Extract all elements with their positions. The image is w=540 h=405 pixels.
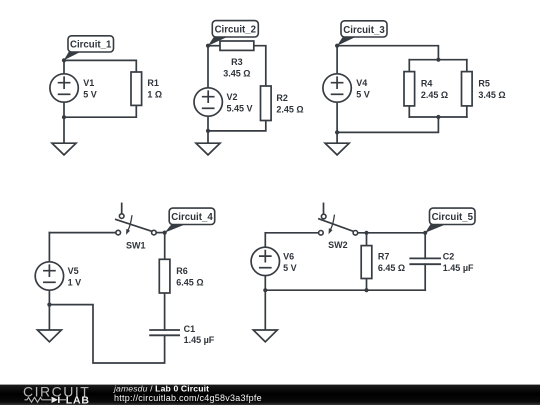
wire V5 top stub xyxy=(48,233,50,262)
voltage source V4 xyxy=(323,74,351,102)
wire V2 top stub xyxy=(207,46,209,88)
svg-text:V2: V2 xyxy=(227,92,238,102)
svg-text:Circuit_5: Circuit_5 xyxy=(432,212,474,223)
node A1 xyxy=(62,58,66,62)
wire R4 top stub xyxy=(408,60,410,72)
svg-text:R7: R7 xyxy=(378,252,390,262)
wire node to R6 xyxy=(164,233,166,260)
svg-text:R3: R3 xyxy=(231,57,243,67)
svg-text:V4: V4 xyxy=(356,78,367,88)
svg-text:6.45 Ω: 6.45 Ω xyxy=(378,263,405,273)
wire V2 bottom stub xyxy=(207,116,209,131)
svg-text:5 V: 5 V xyxy=(356,90,370,100)
svg-text:2.45 Ω: 2.45 Ω xyxy=(421,90,448,100)
capacitor C2 xyxy=(410,258,440,264)
label R6 value xyxy=(176,266,203,287)
capacitor C1 xyxy=(150,330,179,335)
switch SW2 xyxy=(319,203,358,235)
svg-text:SW2: SW2 xyxy=(328,240,348,250)
voltage source V5 xyxy=(35,262,63,290)
flag Circuit_2 xyxy=(208,21,258,46)
svg-text:LAB: LAB xyxy=(66,394,90,405)
flag Circuit_5 xyxy=(425,208,475,233)
resistor R3 xyxy=(220,41,254,50)
ground GND5 xyxy=(253,330,277,342)
label C2 value xyxy=(443,252,474,273)
node A3 xyxy=(335,44,339,48)
voltage source V1 xyxy=(50,74,78,102)
wire top rail R4 R5 xyxy=(409,59,467,61)
svg-text:SW1: SW1 xyxy=(126,241,146,251)
svg-text:R2: R2 xyxy=(276,93,288,103)
wire R7 top stub xyxy=(366,233,368,246)
wire V1 bottom stub xyxy=(63,102,65,117)
svg-text:V5: V5 xyxy=(68,266,79,276)
wire V4 bottom stub xyxy=(336,102,338,132)
resistor R7 xyxy=(361,246,372,279)
wire C2 bottom stub xyxy=(424,264,426,290)
ground GND3 xyxy=(325,143,349,155)
flag Circuit_4 xyxy=(165,208,215,233)
voltage source V2 xyxy=(194,88,222,116)
ground GND2 xyxy=(196,143,220,155)
wire V6 top stub xyxy=(264,233,266,247)
voltage source V6 xyxy=(251,247,279,275)
label R7 value xyxy=(378,252,405,273)
resistor R5 xyxy=(462,72,473,106)
logo waveform zigzag xyxy=(25,397,52,402)
wire R6 to C1 xyxy=(164,293,166,330)
label V4 value xyxy=(356,78,370,99)
node C3bot xyxy=(436,115,440,119)
node E5 xyxy=(263,288,267,292)
svg-text:3.45 Ω: 3.45 Ω xyxy=(478,90,505,100)
flag Circuit_1 xyxy=(64,36,114,61)
label R1 value xyxy=(147,78,162,99)
label V1 value xyxy=(83,78,97,99)
node B3 xyxy=(335,130,339,134)
resistor R1 xyxy=(131,72,142,105)
ground GND4 xyxy=(37,330,61,342)
svg-text:V1: V1 xyxy=(83,78,94,88)
wire bottom rail R4 R5 xyxy=(409,116,467,118)
svg-text:V6: V6 xyxy=(283,252,294,262)
wire ground stub C2 xyxy=(207,131,209,143)
svg-text:C1: C1 xyxy=(184,324,196,334)
wire V4 top stub xyxy=(336,46,338,74)
wire top V1 to R1 xyxy=(64,60,136,72)
label V5 value xyxy=(68,266,82,287)
resistor R2 xyxy=(261,86,272,121)
ground GND1 xyxy=(52,143,76,155)
wire top V4 to rail xyxy=(337,46,438,60)
node B1 xyxy=(62,115,66,119)
wire R5 bottom stub xyxy=(466,106,468,117)
svg-text:R5: R5 xyxy=(478,79,490,89)
wire C1 bottom loop xyxy=(49,305,164,363)
label C1 value xyxy=(184,324,215,345)
node C3top xyxy=(436,58,440,62)
resistor R4 xyxy=(404,72,415,106)
wire V6 top to switch xyxy=(265,232,318,234)
svg-text:Circuit_1: Circuit_1 xyxy=(70,40,112,51)
label V6 value xyxy=(283,252,297,273)
wire switch to node xyxy=(156,232,165,234)
svg-text:6.45 Ω: 6.45 Ω xyxy=(176,278,203,288)
wire bottom rail to V4 xyxy=(337,117,438,132)
svg-text:Circuit_4: Circuit_4 xyxy=(171,212,213,223)
svg-text:Circuit_3: Circuit_3 xyxy=(343,25,385,36)
wire V6 bottom stub xyxy=(264,276,266,291)
wire bottom rail C5 xyxy=(265,289,425,291)
resistor R6 xyxy=(159,259,170,293)
wire ground stub C3 xyxy=(336,132,338,143)
wire R3 to R2 top xyxy=(254,46,266,86)
label R4 value xyxy=(421,79,448,100)
wire ground stub C5 xyxy=(264,290,266,330)
svg-text:5 V: 5 V xyxy=(283,263,297,273)
svg-text:http://circuitlab.com/c4g58v3a: http://circuitlab.com/c4g58v3a3fpfe xyxy=(114,393,262,403)
svg-text:3.45 Ω: 3.45 Ω xyxy=(223,69,250,79)
svg-text:R1: R1 xyxy=(147,78,159,88)
node F5 xyxy=(423,231,427,235)
label R5 value xyxy=(478,79,505,100)
flag Circuit_3 xyxy=(337,21,387,46)
label R3 value xyxy=(223,57,250,78)
wire R2 bottom xyxy=(208,121,266,131)
node D4 xyxy=(163,231,167,235)
svg-text:R4: R4 xyxy=(421,79,433,89)
logo diode symbol xyxy=(52,397,59,403)
wire V1 top stub xyxy=(63,60,65,73)
wire switch to C2 top xyxy=(358,233,426,259)
wire V5 top to switch xyxy=(49,232,116,234)
wire ground stub C4 xyxy=(48,305,50,330)
svg-text:5.45 V: 5.45 V xyxy=(227,104,253,114)
node G5 xyxy=(364,288,368,292)
node B2 xyxy=(206,129,210,133)
svg-text:1 V: 1 V xyxy=(68,278,82,288)
label V2 value xyxy=(227,92,253,113)
svg-text:1 Ω: 1 Ω xyxy=(147,90,162,100)
svg-text:1.45 µF: 1.45 µF xyxy=(443,263,474,273)
node E4 xyxy=(47,303,51,307)
wire R4 bottom stub xyxy=(408,106,410,117)
footer background xyxy=(0,385,540,405)
wire V5 bottom stub xyxy=(48,290,50,304)
svg-text:5 V: 5 V xyxy=(83,90,97,100)
switch SW1 xyxy=(116,203,156,235)
wire bottom R1 to V1 xyxy=(64,105,136,117)
label R2 value xyxy=(276,93,303,114)
svg-text:R6: R6 xyxy=(176,266,188,276)
svg-text:Circuit_2: Circuit_2 xyxy=(215,25,256,36)
wire R5 top stub xyxy=(466,60,468,72)
wire node to R3 xyxy=(208,45,220,47)
node A2 xyxy=(206,44,210,48)
wire R7 bottom stub xyxy=(366,279,368,291)
node D5 xyxy=(364,231,368,235)
svg-text:1.45 µF: 1.45 µF xyxy=(184,335,215,345)
svg-text:2.45 Ω: 2.45 Ω xyxy=(276,105,303,115)
wire ground stub C1 xyxy=(63,117,65,143)
svg-text:C2: C2 xyxy=(443,252,455,262)
